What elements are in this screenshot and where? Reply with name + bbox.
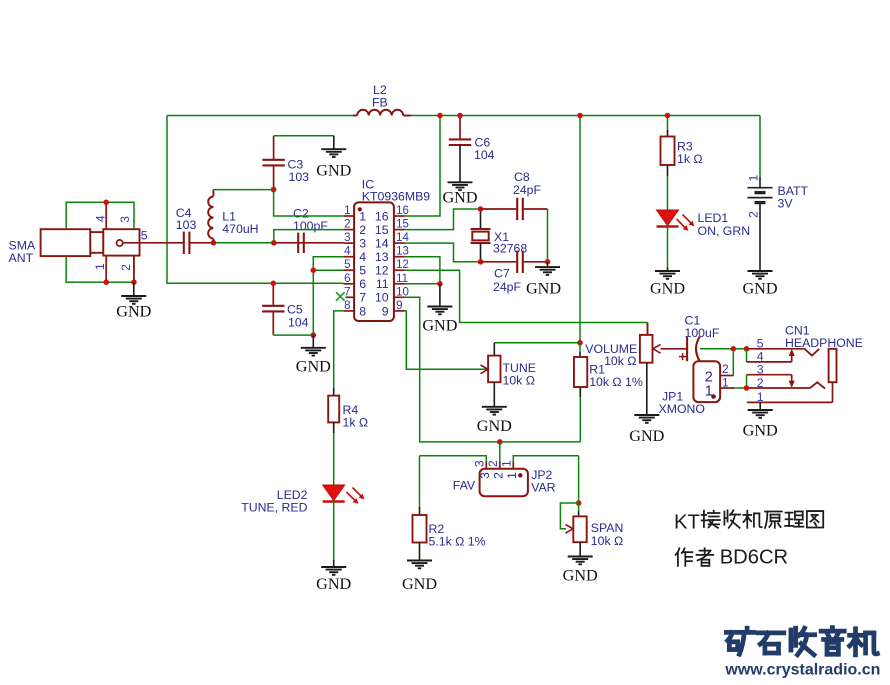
svg-text:16: 16: [375, 209, 389, 223]
svg-text:100pF: 100pF: [293, 219, 328, 233]
svg-text:1: 1: [746, 174, 760, 181]
svg-text:2: 2: [486, 460, 500, 467]
svg-text:6: 6: [344, 273, 350, 285]
svg-text:1: 1: [722, 376, 729, 390]
svg-text:GND: GND: [116, 302, 151, 320]
svg-text:3: 3: [478, 472, 492, 479]
svg-text:C8: C8: [514, 170, 530, 184]
svg-text:GND: GND: [442, 189, 477, 207]
svg-text:10k Ω: 10k Ω: [604, 354, 636, 368]
svg-text:5: 5: [141, 229, 148, 243]
svg-text:11: 11: [396, 273, 408, 285]
svg-text:GND: GND: [526, 279, 561, 297]
svg-text:GND: GND: [296, 358, 331, 376]
svg-text:24pF: 24pF: [493, 280, 522, 294]
svg-text:1: 1: [93, 263, 107, 270]
svg-text:GND: GND: [316, 162, 351, 180]
svg-text:GND: GND: [743, 421, 778, 439]
svg-text:KT0936MB9: KT0936MB9: [362, 190, 431, 204]
svg-text:470uH: 470uH: [222, 222, 258, 236]
svg-text:9: 9: [382, 304, 389, 318]
svg-text:5: 5: [359, 264, 366, 278]
svg-text:GND: GND: [477, 417, 512, 435]
svg-text:4: 4: [344, 246, 351, 258]
svg-text:2: 2: [492, 472, 506, 479]
svg-text:1: 1: [499, 460, 513, 467]
svg-text:5: 5: [757, 337, 764, 351]
svg-text:FB: FB: [372, 95, 388, 109]
svg-text:GND: GND: [422, 317, 457, 335]
svg-text:ON, GRN: ON, GRN: [698, 224, 751, 238]
svg-text:4: 4: [94, 215, 108, 222]
svg-text:GND: GND: [742, 279, 777, 297]
svg-text:7: 7: [359, 291, 366, 305]
svg-text:1: 1: [344, 205, 350, 217]
svg-text:GND: GND: [629, 427, 664, 445]
svg-text:BD6CR: BD6CR: [720, 546, 788, 568]
svg-text:11: 11: [376, 277, 389, 291]
svg-text:4: 4: [359, 250, 366, 264]
svg-text:3: 3: [118, 216, 132, 223]
svg-text:12: 12: [375, 264, 389, 278]
svg-text:FAV: FAV: [453, 478, 476, 492]
svg-text:SPAN: SPAN: [591, 521, 624, 535]
svg-text:KT: KT: [674, 511, 700, 533]
svg-text:10k Ω: 10k Ω: [503, 373, 535, 387]
svg-text:2: 2: [722, 362, 729, 376]
svg-text:www.crystalradio.cn: www.crystalradio.cn: [724, 662, 880, 679]
svg-text:100uF: 100uF: [685, 326, 720, 340]
svg-text:3: 3: [472, 460, 486, 467]
svg-text:104: 104: [474, 148, 495, 162]
svg-text:7: 7: [344, 286, 350, 298]
svg-text:3V: 3V: [778, 197, 794, 211]
svg-text:C7: C7: [494, 267, 510, 281]
svg-text:14: 14: [396, 232, 409, 244]
svg-text:3: 3: [344, 232, 350, 244]
svg-text:103: 103: [289, 170, 310, 184]
svg-text:GND: GND: [650, 279, 685, 297]
svg-text:GND: GND: [316, 575, 351, 593]
svg-text:8: 8: [344, 300, 350, 312]
svg-text:3: 3: [757, 363, 764, 377]
svg-text:2: 2: [746, 211, 760, 218]
svg-text:5: 5: [344, 259, 350, 271]
svg-text:10k Ω: 10k Ω: [591, 534, 623, 548]
svg-text:TUNE, RED: TUNE, RED: [241, 500, 307, 514]
svg-text:13: 13: [375, 250, 389, 264]
svg-text:3: 3: [359, 237, 366, 251]
svg-text:14: 14: [375, 237, 389, 251]
svg-text:15: 15: [375, 223, 389, 237]
svg-text:GND: GND: [402, 575, 437, 593]
svg-text:104: 104: [288, 315, 309, 329]
svg-text:10: 10: [396, 286, 409, 298]
svg-text:8: 8: [359, 304, 366, 318]
svg-text:13: 13: [396, 246, 409, 258]
svg-text:2: 2: [119, 264, 133, 271]
svg-text:1k Ω: 1k Ω: [343, 415, 369, 429]
svg-text:15: 15: [396, 219, 409, 231]
svg-text:24pF: 24pF: [513, 183, 542, 197]
svg-text:XMONO: XMONO: [659, 402, 705, 416]
svg-text:10k Ω 1%: 10k Ω 1%: [589, 375, 643, 389]
svg-text:1k Ω: 1k Ω: [677, 152, 703, 166]
svg-text:LED1: LED1: [698, 211, 729, 225]
svg-text:1: 1: [505, 472, 519, 479]
svg-text:2: 2: [359, 223, 366, 237]
svg-text:1: 1: [359, 209, 366, 223]
svg-text:2: 2: [344, 219, 350, 231]
svg-text:12: 12: [396, 259, 409, 271]
svg-text:5.1k Ω 1%: 5.1k Ω 1%: [429, 534, 486, 548]
svg-text:16: 16: [396, 205, 409, 217]
svg-text:1: 1: [757, 390, 764, 404]
svg-text:2: 2: [757, 376, 764, 390]
svg-text:ANT: ANT: [9, 251, 34, 265]
svg-text:GND: GND: [563, 566, 598, 584]
svg-text:103: 103: [176, 218, 197, 232]
svg-text:9: 9: [396, 300, 402, 312]
svg-text:HEADPHONE: HEADPHONE: [785, 336, 863, 350]
svg-text:10: 10: [375, 291, 389, 305]
svg-text:6: 6: [359, 277, 366, 291]
svg-text:VAR: VAR: [531, 481, 555, 495]
